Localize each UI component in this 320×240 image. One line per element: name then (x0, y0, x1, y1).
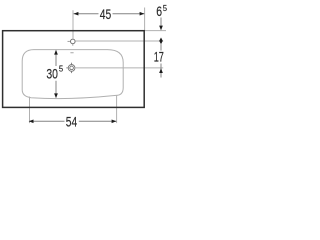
extension line: bowl right for 54 (116, 95, 118, 123)
extension line: basin top edge to right (144, 30, 166, 32)
dimension 54 (bottom) (29, 115, 117, 130)
svg-text:6: 6 (156, 4, 162, 19)
svg-text:45: 45 (100, 7, 111, 22)
washbasin outer rectangle (3, 31, 145, 108)
svg-text:5: 5 (59, 65, 64, 74)
svg-text:30: 30 (46, 67, 58, 82)
extension line: tap hole horizontal (to right dims) (75, 40, 163, 42)
dimension 17 (right) : diamond + line + text + up arrow (154, 38, 164, 78)
overflow slot mark (70, 52, 73, 54)
extension line: drain horizontal (to right dims) (75, 67, 163, 69)
tap hole symbol (68, 39, 76, 46)
extension line: bowl left for 54 (29, 97, 31, 124)
drain symbol (66, 63, 75, 73)
dimension 45 (top) (74, 7, 145, 22)
extension line: basin right edge vertical (to 45 dim) (144, 8, 146, 31)
extension line: tap hole vertical (to 45 dim) (72, 10, 74, 39)
dimension 30-5 (vertical inside bowl) (46, 50, 63, 98)
svg-text:5: 5 (163, 4, 168, 13)
svg-text:54: 54 (66, 115, 78, 130)
svg-text:17: 17 (154, 50, 164, 65)
dimension 65 (right top) (156, 4, 167, 31)
inner bowl outline (22, 50, 123, 99)
